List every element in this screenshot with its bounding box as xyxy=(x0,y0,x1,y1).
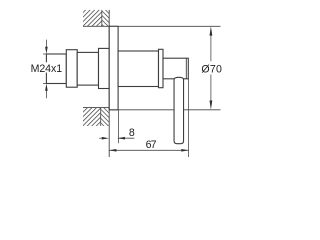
svg-text:M24x1: M24x1 xyxy=(31,63,63,75)
svg-text:67: 67 xyxy=(146,139,157,151)
svg-text:Ø70: Ø70 xyxy=(201,63,222,75)
svg-text:8: 8 xyxy=(129,127,135,139)
